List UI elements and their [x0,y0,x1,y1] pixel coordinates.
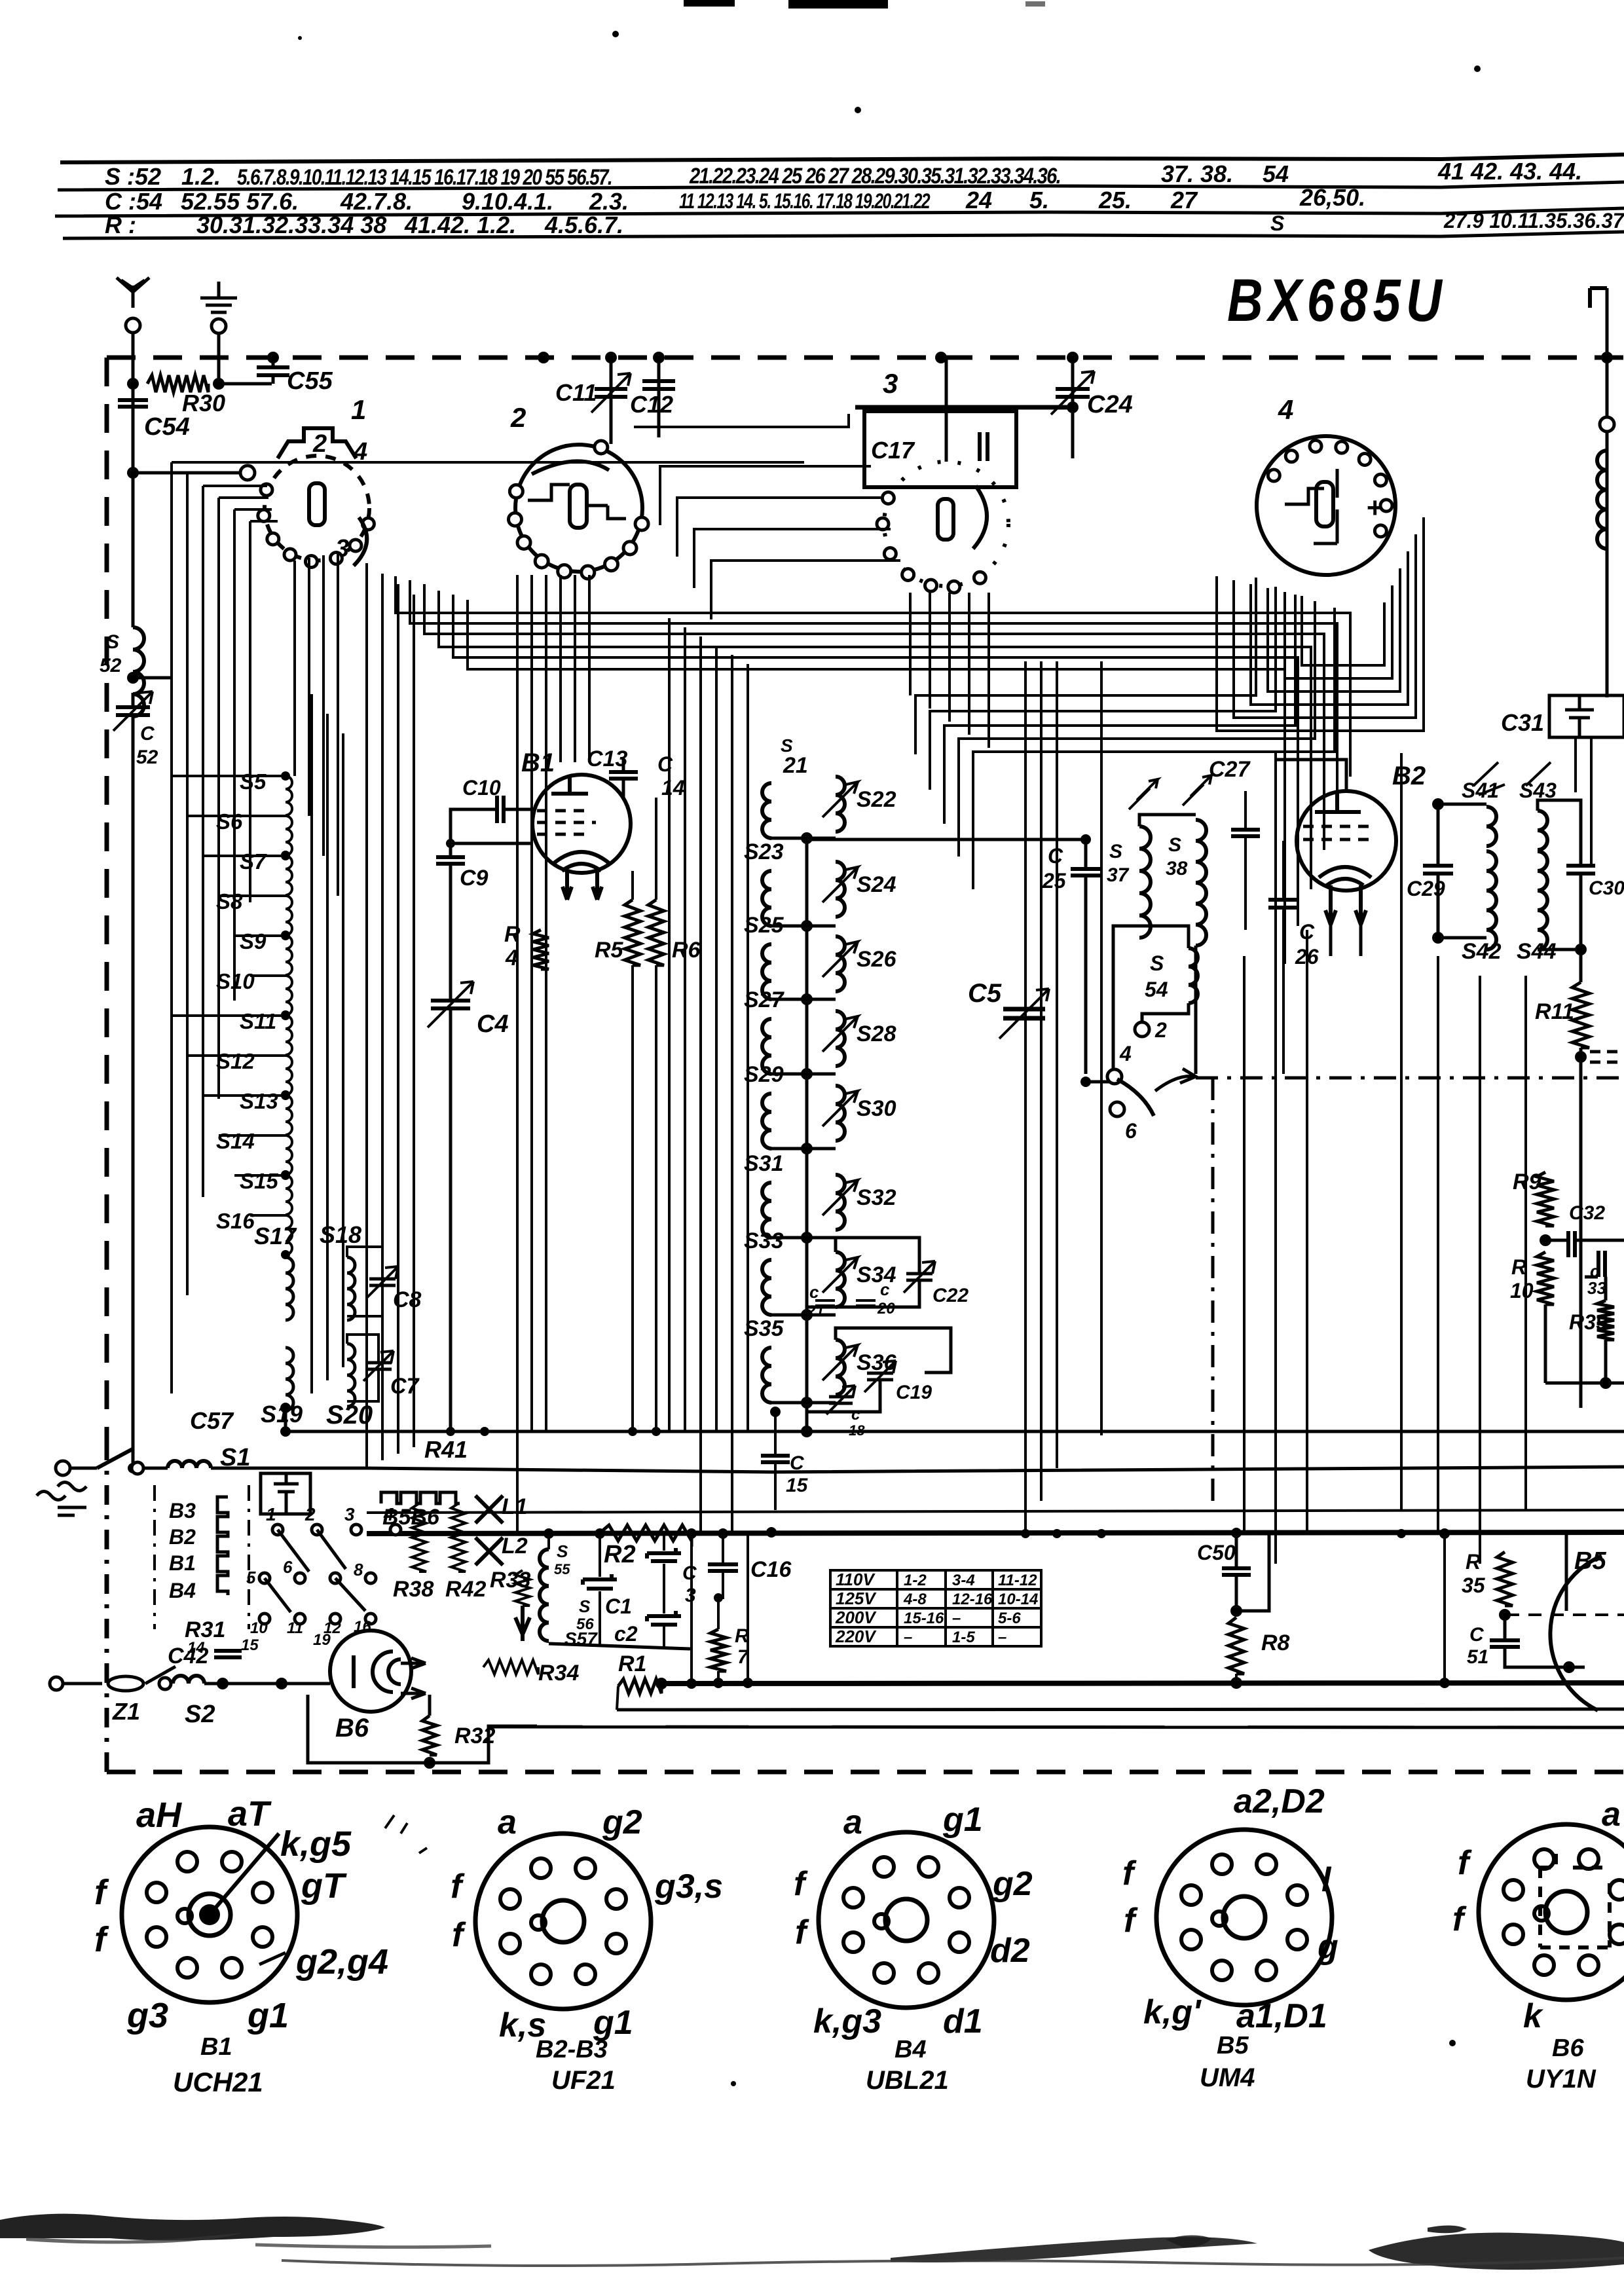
antenna terminal [126,318,140,333]
svg-text:B5: B5 [1217,2032,1249,2059]
wire grid1 [133,471,248,475]
chassis border top [107,356,1624,360]
svg-text:C :54: C :54 [105,188,162,215]
chassis border bottom [107,1770,1624,1775]
junction [1097,1529,1106,1538]
svg-text:B6: B6 [1552,2035,1584,2062]
socket B1 UCH21 [122,1827,297,2002]
wire [1443,1534,1446,1683]
svg-text:S: S [781,735,793,756]
svg-text:B1: B1 [200,2033,232,2061]
wire [1282,841,1285,900]
svg-text:R11: R11 [1535,999,1574,1024]
svg-text:6: 6 [1125,1119,1137,1143]
table rule 2 [58,182,1624,190]
wire [1084,876,1088,1074]
junction [1540,1234,1551,1246]
wire bundle right band [915,578,1335,889]
tube 4 slot [1316,482,1333,526]
junction [280,1403,291,1413]
wire [1139,815,1196,826]
wire [599,1534,601,1577]
cap dashes [1590,1052,1617,1062]
tube B6 cathode [352,1655,356,1688]
speck [612,31,619,37]
capacitor C17 [980,432,987,461]
coil S16 [286,1215,292,1255]
tube B1 lead R [593,871,602,900]
wire to C55 [219,382,272,386]
svg-text:B1: B1 [169,1551,196,1575]
svg-text:k,g3: k,g3 [813,2002,881,2040]
junction [281,771,290,781]
svg-text:R41: R41 [424,1436,468,1463]
svg-text:–: – [952,1610,961,1627]
plug terminal 2 [50,1677,63,1690]
capacitor C16 [708,1564,738,1571]
svg-text:35: 35 [1462,1574,1486,1597]
svg-text:S36: S36 [857,1350,897,1375]
wire [717,1671,720,1683]
svg-text:55: 55 [554,1561,570,1577]
capacitor C32 [1568,1231,1575,1257]
capacitor C50 [1222,1568,1251,1575]
switch S2 blade [145,1667,175,1684]
wire ground down [217,333,221,384]
capacitor C27 [1231,830,1260,836]
svg-text:C27: C27 [1209,757,1251,782]
resistor R38 [412,1503,426,1572]
capacitor C13 [609,772,638,779]
trim S41 [1473,762,1505,795]
wire [1604,1277,1608,1300]
wire bundle left rungs [172,776,286,1215]
junction [1230,1605,1242,1617]
tube B2 anode [1315,792,1361,812]
socket B2-B3 labels [451,1803,723,2044]
svg-text:S17: S17 [254,1223,297,1249]
svg-text:B3: B3 [169,1499,196,1522]
switch S1 blade [97,1448,134,1468]
chassis border left [105,358,109,1441]
svg-text:3: 3 [344,1504,355,1524]
tube 4 step [1285,469,1337,544]
wire [284,1408,287,1431]
speck [1449,2040,1456,2046]
tube 4 envelope [1257,436,1395,575]
wire [347,1369,378,1401]
wire [1545,1382,1624,1385]
tube 4 pins [1268,470,1280,481]
svg-text:125V: 125V [836,1589,877,1608]
smudge left tail [255,2245,491,2247]
junction [127,467,139,479]
wire bundle ladder feeds [669,618,748,1534]
junction [801,993,813,1005]
capacitor C4 variable [431,1001,470,1008]
wire bundle horizontal band [396,576,1350,964]
wire [1579,1048,1583,1408]
wire [655,798,657,900]
junction [655,1678,667,1689]
capacitor C55 [257,367,289,375]
coil S32 slash [822,1180,858,1215]
wire [655,965,657,1431]
wire [308,1695,537,1763]
svg-text:S35: S35 [744,1316,784,1341]
capacitor C1 [583,1574,617,1589]
junction [801,1426,813,1437]
box C17 [864,411,1016,487]
coil S15 [286,1175,292,1215]
wire bundle mid rails [312,563,414,1467]
svg-text:25.: 25. [1098,187,1132,213]
junction [1067,401,1079,413]
svg-text:10-14: 10-14 [998,1591,1038,1608]
junction [127,378,139,390]
wire [458,808,496,811]
coil S22 [836,777,845,832]
junction [281,1091,290,1100]
wire [717,1598,720,1629]
svg-text:110V: 110V [836,1570,876,1589]
capacitor C18 variable [829,1397,853,1403]
wire [774,1463,777,1510]
coil S5 [286,776,292,815]
socket B1 labels [94,1794,388,2035]
wire [617,1686,618,1710]
svg-text:S15: S15 [240,1169,278,1193]
svg-text:S29: S29 [744,1062,784,1087]
wire rung [771,1401,836,1405]
junction on border [605,352,617,363]
svg-text:c: c [880,1280,890,1299]
svg-text:c: c [851,1406,860,1424]
svg-text:C32: C32 [1569,1202,1605,1224]
svg-text:a2,D2: a2,D2 [1234,1782,1325,1820]
svg-text:UBL21: UBL21 [866,2066,949,2095]
tube 2 inner arc [532,461,609,474]
wire [64,1682,102,1686]
tube 2 slot [570,485,587,528]
resistor R30 [147,375,208,392]
wire rung [771,1147,836,1151]
svg-text:k,g': k,g' [1143,1993,1202,2031]
svg-text:1: 1 [351,394,366,425]
tube B2 cathode [1319,867,1371,885]
junction [713,1678,724,1688]
wire [449,1008,452,1431]
svg-text:S7: S7 [240,849,267,874]
junction [1575,944,1587,955]
svg-text:R34: R34 [538,1661,579,1686]
svg-text:8: 8 [354,1560,363,1579]
svg-text:R2: R2 [604,1541,636,1568]
svg-text:R: R [1466,1550,1481,1574]
wire [622,757,625,771]
svg-text:S42: S42 [1462,939,1502,964]
wire box edge [690,1534,693,1684]
wire [132,715,135,1468]
coil S17 [286,1257,293,1320]
wire [1235,1576,1238,1611]
svg-text:UCH21: UCH21 [173,2067,263,2097]
fuse Z1 [108,1676,143,1691]
diode arrow [515,1606,530,1641]
smudge right speck [1428,2225,1467,2233]
wire bundle tube4 brackets [1217,517,1424,731]
svg-text:27: 27 [1170,187,1198,213]
svg-text:C50: C50 [1197,1541,1236,1564]
socket B5 UM4 [1156,1830,1332,2005]
wire [1282,908,1285,1074]
junction [128,1463,138,1473]
wire [1545,1239,1568,1242]
wire bundle right verticals [1244,753,1526,1564]
svg-text:3-4: 3-4 [952,1572,975,1589]
coil S31 [762,1183,771,1238]
resistor R34 [483,1660,538,1674]
svg-text:2: 2 [510,402,526,433]
svg-text:21.22.23.24 25 26 27 28.29.30.: 21.22.23.24 25 26 27 28.29.30.35.31.32.3… [689,164,1060,189]
junction [1575,1051,1587,1063]
junction [718,1528,728,1539]
resistor R2 [600,1525,692,1541]
coil S29 [762,1094,771,1149]
wire [836,1238,919,1273]
junction [1080,1077,1091,1087]
wire rung to C25 [807,838,1086,841]
coil S52 [133,627,144,716]
svg-text:S32: S32 [857,1185,896,1210]
svg-text:51: 51 [1467,1646,1488,1668]
wire [428,1695,432,1716]
wire S57 line [549,1644,690,1649]
svg-text:26,50.: 26,50. [1299,184,1365,211]
svg-text:C: C [682,1562,697,1584]
svg-text:UY1N: UY1N [1526,2065,1596,2093]
svg-text:19: 19 [313,1631,331,1649]
svg-text:C12: C12 [630,391,673,418]
capacitor C42 [214,1651,242,1657]
svg-text:1-2: 1-2 [904,1572,927,1589]
svg-text:15: 15 [241,1636,259,1654]
box C31 [1549,695,1624,737]
svg-text:4: 4 [383,1504,394,1524]
coil S35 [762,1348,771,1403]
junction [1052,1529,1061,1538]
wire [144,1467,168,1470]
coil S34 [836,1252,845,1307]
junction [766,1527,777,1538]
svg-text:6: 6 [283,1557,293,1577]
svg-text:S30: S30 [857,1096,896,1121]
tube B2 grids [1303,826,1370,839]
wire C12 [657,358,661,432]
svg-text:52: 52 [136,747,158,768]
junction on border [267,352,279,363]
wire [855,405,1075,410]
svg-text:S5: S5 [240,769,267,794]
tube 1 slot [309,483,325,525]
bus anode [286,1430,1624,1433]
wire [1236,1535,1269,1611]
heater chain box [155,1485,249,1629]
svg-text:S26: S26 [857,947,897,972]
junction [1563,1661,1575,1673]
svg-text:C54: C54 [144,413,190,441]
coil S21 [762,783,771,838]
voltage table frame [830,1570,1041,1646]
svg-text:37. 38.: 37. 38. [1161,160,1233,187]
terminal [159,1678,171,1689]
ground terminal [212,319,226,333]
table rule 1 [60,155,1624,162]
smudge right [1369,2233,1624,2270]
svg-text:k: k [1523,1997,1544,2035]
svg-text:a1,D1: a1,D1 [1236,1997,1327,2035]
fuse coil [168,1461,211,1468]
wire rung [771,1314,836,1317]
wire [133,676,172,680]
junction on border [653,352,665,363]
coil S12 [286,1056,292,1095]
svg-text:–: – [904,1629,912,1646]
coil S42 [1486,851,1496,949]
tube 3 arm [973,486,987,549]
wire [1590,737,1593,866]
wire C11 [610,358,613,444]
speck [731,2081,736,2086]
svg-text:C22: C22 [932,1285,969,1306]
capacitor C29 [1423,866,1453,874]
junction [595,1528,605,1539]
coil S44 [1538,851,1547,949]
svg-text:a: a [1602,1796,1621,1834]
coil S54 [1189,948,1198,1003]
switch arrow [1155,1069,1196,1091]
svg-text:C57: C57 [190,1407,234,1434]
wire ladder spine [805,839,809,1431]
resistor R39 [1597,1300,1614,1340]
svg-text:220V: 220V [835,1627,877,1646]
svg-text:5: 5 [246,1568,256,1587]
bottom edge line [282,2258,1624,2266]
wire [1538,874,1581,949]
svg-text:gT: gT [301,1866,347,1906]
terminal 4 [1107,1069,1122,1084]
svg-text:g3: g3 [126,1996,168,2035]
svg-text:a: a [843,1803,862,1841]
svg-text:5-6: 5-6 [998,1610,1021,1627]
wire [1585,1276,1598,1279]
junction [802,1427,811,1436]
wire [132,693,135,706]
junction [213,378,225,390]
capacitor C31 [1565,695,1594,737]
svg-text:L1: L1 [502,1494,528,1519]
svg-text:S2: S2 [185,1701,215,1728]
coil S26 [836,936,845,991]
wire [747,1534,749,1683]
tube B1 cathode [554,852,609,871]
svg-text:UF21: UF21 [551,2066,616,2095]
junction [801,832,813,844]
svg-text:11 12.13 14. 5. 15.16. 17.18 1: 11 12.13 14. 5. 15.16. 17.18 19.20.21.22 [679,189,931,213]
junction [281,1010,290,1020]
svg-text:S24: S24 [857,872,896,897]
junction [280,1426,291,1437]
bus heavy [367,1532,1624,1534]
svg-text:1: 1 [266,1504,276,1524]
tube B5 dash [1506,1613,1624,1616]
terminal [132,1462,143,1474]
wire switch [1086,1080,1109,1084]
bus thin pair 1 [617,1709,1624,1710]
svg-text:2.3.: 2.3. [589,188,629,215]
junction [652,1427,661,1436]
wire rung [771,837,836,840]
capacitor C24 variable [1056,389,1090,397]
svg-text:S31: S31 [744,1151,784,1176]
terminal 6 [1110,1102,1124,1116]
resistor R35 [1497,1552,1513,1606]
resistor R8 [1228,1617,1244,1674]
wire [451,842,533,845]
switch blade [1117,1079,1154,1116]
junction [424,1757,435,1769]
resistor R10 [1537,1252,1554,1304]
socket B2-B3 UF21 [475,1834,651,2009]
wire B2 anode top [1276,760,1346,791]
svg-text:41 42. 43. 44.: 41 42. 43. 44. [1437,158,1582,185]
junction [1231,1528,1242,1538]
capacitor C20 [856,1300,876,1306]
tube B1 anode [551,775,588,794]
capacitor C52 variable [116,707,150,715]
wire [1604,1340,1608,1383]
wire [547,1534,550,1549]
socket B6 UY1N [1479,1824,1624,2000]
resistor R42 [451,1503,466,1572]
svg-text:1.2.: 1.2. [181,163,221,190]
svg-text:–: – [998,1629,1006,1646]
coil S37 [1139,826,1151,938]
lamp L1 [475,1496,503,1523]
junction [801,1309,813,1321]
svg-text:C4: C4 [477,1010,509,1038]
svg-text:l: l [1321,1861,1332,1899]
wire [1576,1239,1624,1242]
svg-text:5.: 5. [1029,187,1049,213]
trim arrows S38 [1183,775,1211,805]
tube 3 pins [882,492,894,504]
resistor R4 [533,930,549,969]
junction [281,931,290,940]
junction on border [538,352,549,363]
svg-text:g2: g2 [992,1865,1033,1903]
svg-text:B2: B2 [169,1525,196,1549]
svg-text:R :: R : [105,212,136,238]
svg-text:33: 33 [1587,1278,1606,1298]
svg-text:S12: S12 [216,1049,255,1073]
resistor R6 [648,900,664,965]
junction [1432,932,1444,944]
junction [801,1143,813,1154]
tube 1 top notch [278,428,356,458]
terminal [1600,417,1614,432]
svg-text:R5: R5 [595,938,624,963]
